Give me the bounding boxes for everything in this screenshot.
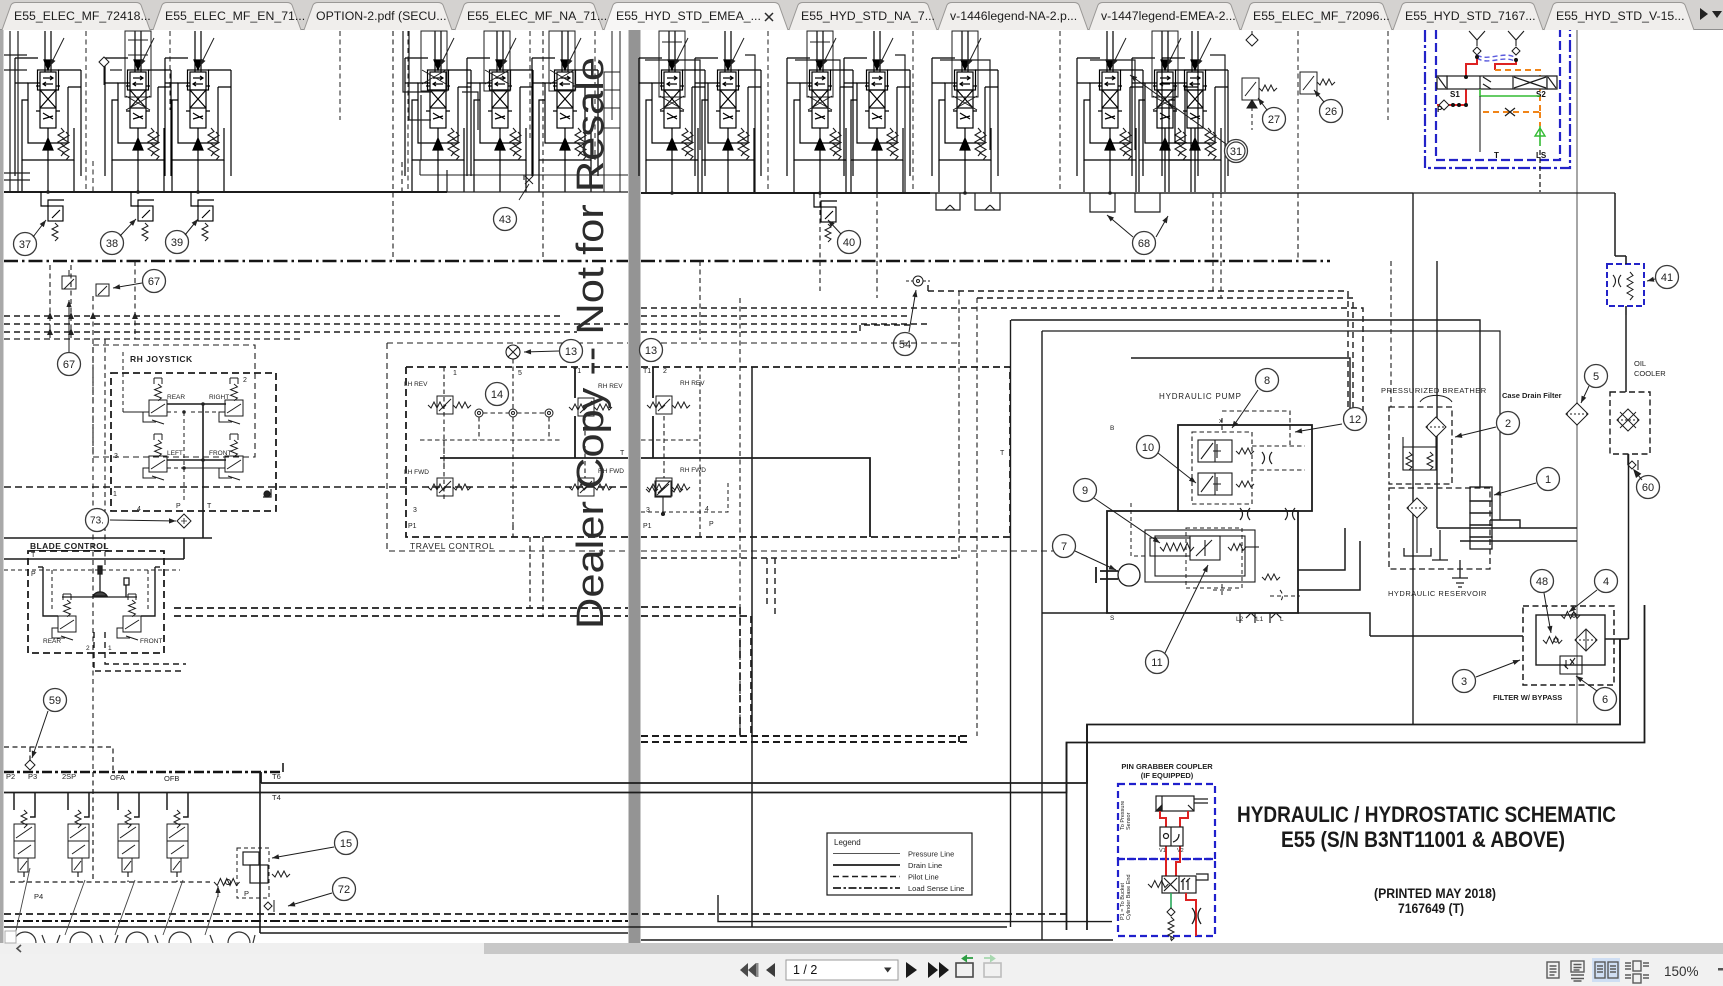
callout 40 — [838, 231, 861, 254]
label T p1 — [620, 450, 625, 457]
pump lower box — [1107, 511, 1298, 613]
label LH FWD — [404, 469, 429, 476]
blade dashed P wire — [4, 570, 180, 612]
filter bypass dashed box — [1523, 606, 1614, 685]
joystick P dashed wire — [123, 352, 225, 500]
valve section V7 (partial) — [604, 31, 620, 192]
heavy dashed pair p2 — [641, 607, 751, 736]
arrow 1 — [1494, 483, 1536, 496]
svg-text:V2: V2 — [1177, 848, 1184, 854]
svg-text:V1: V1 — [1159, 848, 1166, 854]
legend pilot line — [833, 873, 939, 882]
pin grabber box upper — [1118, 784, 1215, 859]
relief valve 15 — [237, 848, 290, 898]
svg-text:Drain Line: Drain Line — [908, 861, 942, 870]
pilot bus C p1 — [4, 331, 577, 333]
svg-text:60: 60 — [1642, 482, 1654, 494]
valve section V4 — [405, 31, 471, 192]
svg-text:v-1446legend-NA-2.p...: v-1446legend-NA-2.p... — [950, 9, 1077, 23]
pump bottom ports — [1240, 613, 1281, 623]
svg-text:v-1447legend-EMEA-2...: v-1447legend-EMEA-2... — [1101, 9, 1236, 23]
callout 10 — [1137, 436, 1160, 459]
part number — [1398, 901, 1464, 916]
travel valve LHREV — [428, 396, 471, 414]
filter diamond — [1575, 629, 1597, 651]
reducing valve RIGHT — [219, 378, 243, 424]
svg-text:5: 5 — [518, 370, 522, 377]
tab v-1446legend-NA-2.p... — [938, 3, 1088, 31]
svg-text:S: S — [1110, 615, 1115, 622]
BLADE CONTROL label — [30, 541, 109, 551]
green wire — [1170, 893, 1172, 908]
svg-text:67: 67 — [63, 359, 75, 371]
svg-text:2: 2 — [663, 368, 667, 375]
load sense bus p2 — [641, 260, 1330, 262]
bottom double solid — [4, 763, 1007, 933]
callout 41 — [1656, 266, 1679, 289]
plug X 43 — [519, 176, 533, 200]
arrow 7 — [1075, 551, 1116, 570]
callout 68 — [1133, 232, 1156, 255]
arrow 6 — [1576, 676, 1597, 691]
bypass valve 41 blue box — [1607, 264, 1644, 306]
bottom solid wires p2 — [641, 895, 1113, 940]
label P — [244, 889, 249, 898]
svg-text:54: 54 — [899, 339, 911, 351]
green tank wire — [1480, 89, 1540, 146]
printed date — [1374, 886, 1496, 901]
svg-text:P1: P1 — [408, 523, 417, 530]
valve section V2 — [105, 31, 171, 192]
pilot line verticals top band p1 — [86, 31, 595, 192]
svg-text:41: 41 — [1661, 272, 1673, 284]
pilot pair wire right — [174, 608, 628, 616]
LS dashed down — [1539, 150, 1541, 192]
long vertical solid x752 — [751, 367, 753, 927]
pump dashed inner — [1131, 500, 1300, 602]
callout 3 — [1453, 670, 1476, 693]
svg-text:T1: T1 — [643, 368, 651, 375]
bottom dashed bus long — [4, 913, 1066, 915]
pump upper inner dashed — [1192, 411, 1305, 504]
funnels — [1469, 31, 1524, 55]
legend pressure line — [833, 850, 954, 859]
case drain diamond — [1566, 403, 1588, 425]
svg-text:REAR: REAR — [167, 394, 185, 401]
bottom dashdot — [4, 920, 628, 922]
svg-text:LH REV: LH REV — [404, 381, 428, 388]
pump reg valve 1 — [1198, 440, 1254, 462]
extra circle 31 — [1227, 142, 1245, 160]
svg-text:OIL: OIL — [1634, 359, 1646, 368]
svg-text:1: 1 — [1545, 474, 1551, 486]
svg-text:E55 (S/N B3NT11001 & ABOVE): E55 (S/N B3NT11001 & ABOVE) — [1281, 827, 1565, 852]
nav next button — [906, 962, 917, 978]
tab scroll right button — [1700, 8, 1708, 20]
svg-text:48: 48 — [1536, 576, 1548, 588]
callout 43 — [494, 208, 517, 231]
arrow 10 — [1158, 453, 1196, 483]
arrow 40 — [828, 220, 841, 234]
pilot bus joystick bottom — [4, 486, 628, 488]
svg-text:2: 2 — [1505, 418, 1511, 430]
FILTER W/ BYPASS label — [1493, 693, 1562, 702]
tab E55_ELEC_MF_72418... — [2, 3, 151, 31]
svg-text:BLADE CONTROL: BLADE CONTROL — [30, 541, 109, 551]
svg-text:x: x — [1219, 418, 1223, 425]
svg-text:E55_HYD_STD_NA_7...: E55_HYD_STD_NA_7... — [801, 9, 935, 23]
tab E55_HYD_STD_EMEA_... — [604, 3, 788, 31]
supply corner wire C — [1131, 358, 1350, 425]
LS junction 54 — [906, 276, 930, 286]
arrows 68 — [1107, 215, 1168, 237]
pump lower inner — [1145, 530, 1255, 582]
label LEFT — [167, 450, 183, 457]
svg-text:150%: 150% — [1664, 964, 1699, 979]
bypass switch box — [1560, 656, 1582, 674]
tab E55_HYD_STD_NA_7... — [789, 3, 937, 31]
svg-text:HYDRAULIC PUMP: HYDRAULIC PUMP — [1159, 392, 1242, 401]
pilot bus D p1 — [4, 338, 300, 340]
svg-text:14: 14 — [491, 389, 503, 401]
joystick inner box — [111, 373, 276, 511]
svg-text:2: 2 — [86, 645, 90, 652]
wire boxes top band p1 — [4, 31, 478, 192]
arrow 67b — [66, 300, 71, 352]
svg-text:RH JOYSTICK: RH JOYSTICK — [130, 354, 193, 364]
T LS labels — [1494, 151, 1547, 160]
tab E55_ELEC_MF_72096... — [1241, 3, 1392, 31]
callout 27 — [1263, 108, 1286, 131]
pin relief — [1167, 908, 1175, 941]
svg-text:HYDRAULIC / HYDROSTATIC SCHEMA: HYDRAULIC / HYDROSTATIC SCHEMATIC — [1237, 802, 1616, 827]
svg-text:9: 9 — [1082, 485, 1088, 497]
arrow 8 — [1232, 390, 1258, 428]
reducing valve REAR — [143, 378, 167, 424]
arrow 5 — [1581, 386, 1589, 403]
svg-text:LH FWD: LH FWD — [404, 469, 429, 476]
shuttle 67a — [62, 270, 76, 289]
blue squiggle pilot — [1477, 55, 1516, 62]
S1S2 solenoid block blue frame outer — [1425, 30, 1570, 168]
pump reg valve 2 — [1198, 473, 1254, 495]
svg-text:11: 11 — [1151, 657, 1162, 669]
tab E55_ELEC_MF_EN_71... — [153, 3, 305, 31]
port labels p2 — [643, 506, 714, 530]
label RH FWD p1 — [598, 468, 624, 475]
HYDRAULIC RESERVOIR label — [1388, 589, 1487, 598]
arrow 4 — [1569, 590, 1597, 612]
svg-text:3: 3 — [114, 453, 118, 460]
bypass spring top — [1561, 612, 1580, 619]
solenoid valve SV-2SP — [68, 810, 89, 872]
svg-text:E55_HYD_STD_EMEA_...: E55_HYD_STD_EMEA_... — [616, 9, 761, 23]
nav last page button — [928, 962, 949, 978]
pilot vertical x393 — [393, 31, 543, 261]
svg-text:TRAVEL CONTROL: TRAVEL CONTROL — [410, 541, 494, 551]
pilot bus p2 row3 — [641, 308, 1363, 420]
svg-text:10: 10 — [1142, 442, 1154, 454]
svg-text:12: 12 — [1349, 414, 1361, 426]
T6 solid bus — [4, 605, 1645, 930]
svg-text:T: T — [1000, 450, 1005, 457]
valve 26 — [1300, 72, 1335, 94]
sensor text rotated — [1120, 801, 1132, 920]
reservoir filter diamond — [1407, 498, 1427, 553]
svg-text:4: 4 — [1603, 576, 1609, 588]
pin orifice — [1192, 908, 1201, 924]
RH JOYSTICK label — [130, 354, 193, 364]
svg-text:4: 4 — [137, 506, 141, 513]
bottom valve feed wires — [14, 793, 188, 817]
gray case drain line — [1576, 30, 1578, 724]
green arrow — [1535, 128, 1545, 136]
svg-text:B: B — [1110, 425, 1114, 432]
callout 38 — [101, 232, 124, 255]
nav prev button — [766, 963, 775, 977]
callout 12 — [1344, 408, 1367, 431]
svg-text:2: 2 — [243, 377, 247, 384]
callout 5 — [1585, 365, 1608, 388]
blade lower dashed wires — [94, 632, 186, 671]
svg-text:P3: P3 — [28, 772, 37, 781]
arrow to RV37 — [33, 220, 46, 237]
svg-text:37: 37 — [19, 239, 31, 251]
relief valve RV40 — [814, 193, 837, 242]
pilot verticals top band p2 — [768, 31, 1388, 193]
svg-text:T: T — [1494, 151, 1499, 160]
orifices row — [475, 409, 553, 417]
svg-text:PRESSURIZED BREATHER: PRESSURIZED BREATHER — [1381, 386, 1487, 395]
svg-text:FRONT: FRONT — [140, 638, 162, 645]
svg-text:3: 3 — [646, 507, 650, 514]
pump upper box — [1178, 425, 1312, 511]
svg-text:FRONT: FRONT — [209, 450, 231, 457]
long vertical wires p2 — [1011, 193, 1438, 940]
tank symbol — [1404, 530, 1468, 587]
svg-text:REAR: REAR — [43, 638, 61, 645]
icon two page continuous — [1625, 961, 1649, 983]
title line 1 — [1237, 802, 1616, 827]
oil cooler dashed box — [1610, 392, 1650, 454]
svg-text:L1: L1 — [1256, 616, 1264, 623]
svg-text:6: 6 — [1602, 694, 1608, 706]
red wires upper — [1160, 811, 1188, 876]
arrow 48 — [1544, 593, 1552, 633]
labels T1 2 p2 — [643, 368, 667, 375]
svg-text:Pressure Line: Pressure Line — [908, 850, 954, 859]
svg-text:(IF EQUIPPED): (IF EQUIPPED) — [1141, 771, 1194, 780]
svg-text:OFB: OFB — [164, 774, 179, 783]
bottom manifold circles — [8, 932, 255, 943]
svg-text:T: T — [207, 503, 212, 510]
valve 27 — [1242, 78, 1277, 130]
pilot bus A p1 — [4, 315, 560, 317]
callout 67 — [143, 270, 166, 293]
check valve — [99, 57, 109, 85]
travel T wire — [440, 367, 628, 458]
oil cooler diamond — [1617, 409, 1639, 431]
callout 73. — [86, 509, 109, 532]
arrow 41 — [1647, 277, 1655, 282]
callout 2 — [1497, 412, 1520, 435]
label RH REV p2 — [680, 380, 705, 387]
travel valve RHFWD2 — [647, 478, 690, 496]
solenoid valve SV-P3 — [14, 810, 35, 872]
svg-text:P: P — [244, 889, 249, 898]
red supply wire — [1437, 55, 1516, 105]
svg-text:3: 3 — [1461, 676, 1467, 688]
valve section V1 — [15, 31, 81, 192]
joystick outer box — [93, 345, 255, 457]
filter bypass solid box — [1536, 615, 1605, 665]
svg-text:P1: P1 — [643, 523, 652, 530]
label x — [1219, 418, 1223, 425]
arrow 9 — [1094, 498, 1160, 543]
travel outer p2 — [641, 343, 1060, 551]
callout 31 — [1225, 140, 1248, 163]
pin valve — [1148, 874, 1208, 893]
svg-text:COOLER: COOLER — [1634, 369, 1666, 378]
svg-text:P: P — [709, 521, 714, 528]
pilot bus B p1 — [4, 323, 628, 325]
watermark — [570, 57, 612, 629]
tab OPTION-2.pdf (SECU... — [304, 3, 452, 31]
valve section V15 — [1162, 31, 1228, 192]
svg-text:Sensor: Sensor — [1126, 812, 1132, 830]
svg-text:P4: P4 — [34, 892, 43, 901]
callout 13 — [640, 339, 663, 362]
solenoid valve SV-OFA — [118, 810, 139, 872]
callout 59 — [44, 689, 67, 712]
svg-text:LS: LS — [1536, 151, 1547, 160]
callout 11 — [1146, 651, 1169, 674]
HYDRAULIC PUMP label — [1159, 392, 1242, 401]
reducing valve LEFT — [143, 434, 167, 480]
svg-text:S1: S1 — [1450, 90, 1460, 99]
labels L2 L1 L — [1110, 425, 1284, 623]
top band spool extras p2 — [659, 31, 1178, 110]
arrow 12 — [1295, 424, 1342, 433]
blade T P labels — [31, 552, 36, 578]
arrow to RV39 — [185, 219, 198, 235]
supply corner wire A — [1011, 320, 1480, 487]
svg-text:E55_HYD_STD_V-15...: E55_HYD_STD_V-15... — [1556, 9, 1685, 23]
handle symbol joystick — [263, 489, 271, 497]
port labels bottom — [6, 772, 281, 802]
orange X — [1505, 108, 1515, 116]
svg-text:E55_ELEC_MF_72096...: E55_ELEC_MF_72096... — [1253, 9, 1390, 23]
svg-text:7: 7 — [1061, 541, 1067, 553]
svg-text:HYDRAULIC RESERVOIR: HYDRAULIC RESERVOIR — [1388, 589, 1487, 598]
S1S2 blue frame inner — [1436, 30, 1560, 160]
label RH FWD p2 — [680, 467, 706, 474]
page 1 left edge — [0, 30, 4, 943]
callout 9 — [1074, 479, 1097, 502]
svg-text:E55_HYD_STD_7167...: E55_HYD_STD_7167... — [1405, 9, 1536, 23]
svg-text:P: P — [176, 503, 181, 510]
reducing valve B-REAR — [52, 594, 76, 640]
svg-text:OFA: OFA — [110, 773, 125, 782]
page separator bar — [629, 30, 641, 943]
legend load sense line — [833, 884, 964, 893]
breather springs box — [1403, 437, 1436, 470]
check diamond top — [1246, 31, 1258, 46]
svg-text:5: 5 — [1593, 371, 1599, 383]
reducing valve B-FRONT — [117, 594, 141, 640]
valve section V9 — [695, 31, 761, 192]
svg-text:LEFT: LEFT — [167, 450, 183, 457]
svg-text:P: P — [31, 571, 36, 578]
arrow 59 + check — [25, 711, 48, 770]
S1 S2 labels — [1450, 90, 1546, 99]
drain wire p1 — [4, 173, 628, 192]
svg-text:39: 39 — [171, 237, 183, 249]
svg-text:E55_ELEC_MF_NA_71...: E55_ELEC_MF_NA_71... — [467, 9, 607, 23]
svg-text:FILTER W/ BYPASS: FILTER W/ BYPASS — [1493, 693, 1562, 702]
relief valve RV38 — [131, 192, 154, 241]
joystick T wire — [167, 404, 226, 521]
red dots — [1451, 55, 1518, 107]
svg-text:31: 31 — [1230, 146, 1242, 158]
callout 67 — [58, 353, 81, 376]
pump piston group — [1150, 536, 1280, 580]
svg-text:3: 3 — [413, 507, 417, 514]
svg-text:2SP: 2SP — [62, 772, 76, 781]
label T p2 — [1000, 450, 1005, 457]
orifice symbols pump — [1240, 452, 1295, 520]
callout 13 — [560, 340, 583, 363]
dashed box 59 — [4, 747, 113, 770]
orange LS wire — [1483, 70, 1540, 126]
svg-text:T6: T6 — [272, 772, 281, 781]
arrow 13 — [524, 349, 559, 354]
port block 1 — [1470, 487, 1492, 549]
svg-text:T: T — [31, 552, 36, 559]
callout 48 — [1531, 570, 1554, 593]
inlet spring screen — [214, 879, 240, 898]
travel wires p2 — [641, 367, 870, 537]
icon single page — [1547, 962, 1559, 978]
v labels — [1159, 848, 1184, 854]
travel valve RHFWD1 — [569, 478, 612, 496]
blade labels — [43, 638, 162, 652]
icon continuous page — [1571, 961, 1584, 981]
arrow 31 — [1130, 75, 1226, 144]
arrow 3 — [1476, 660, 1520, 677]
pressure bus wire p2 — [641, 191, 1413, 195]
pump circle — [1096, 564, 1140, 586]
bypass valve 41 internals — [1613, 256, 1633, 315]
svg-text:72: 72 — [338, 884, 350, 896]
svg-text:PIN GRABBER COUPLER: PIN GRABBER COUPLER — [1121, 762, 1213, 771]
travel dashed p2 — [641, 367, 700, 537]
blade control T wire — [4, 521, 212, 559]
travel valve RHREV1 — [569, 398, 612, 416]
callout 15 — [335, 832, 358, 855]
legend drain line — [833, 861, 942, 870]
svg-text:E55_ELEC_MF_EN_71...: E55_ELEC_MF_EN_71... — [165, 9, 305, 23]
red dot top wire — [1464, 75, 1468, 79]
riser arrowheads p1 — [47, 312, 138, 335]
zoom level text — [1664, 964, 1699, 979]
T drain vertical — [1479, 96, 1481, 152]
tab E55_ELEC_MF_NA_71... — [455, 3, 607, 31]
callout 54 — [894, 333, 917, 356]
callout 60 — [1637, 476, 1660, 499]
breather LS riser — [1390, 261, 1392, 407]
svg-text:RH REV: RH REV — [680, 380, 705, 387]
